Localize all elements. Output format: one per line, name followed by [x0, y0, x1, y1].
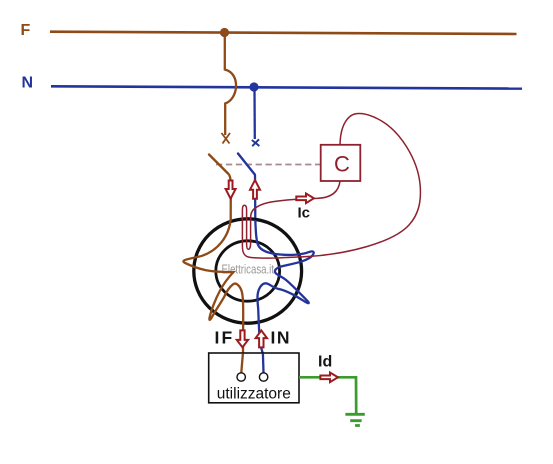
svg-text:IN: IN	[271, 328, 292, 348]
svg-text:C: C	[334, 152, 350, 177]
svg-text:utilizzatore: utilizzatore	[217, 386, 291, 403]
svg-text:IF: IF	[215, 328, 235, 348]
svg-text:Ic: Ic	[298, 205, 311, 222]
svg-text:Id: Id	[318, 354, 332, 371]
svg-text:Elettricasa.it: Elettricasa.it	[222, 262, 275, 277]
svg-text:F: F	[21, 22, 31, 39]
svg-text:N: N	[22, 75, 34, 92]
